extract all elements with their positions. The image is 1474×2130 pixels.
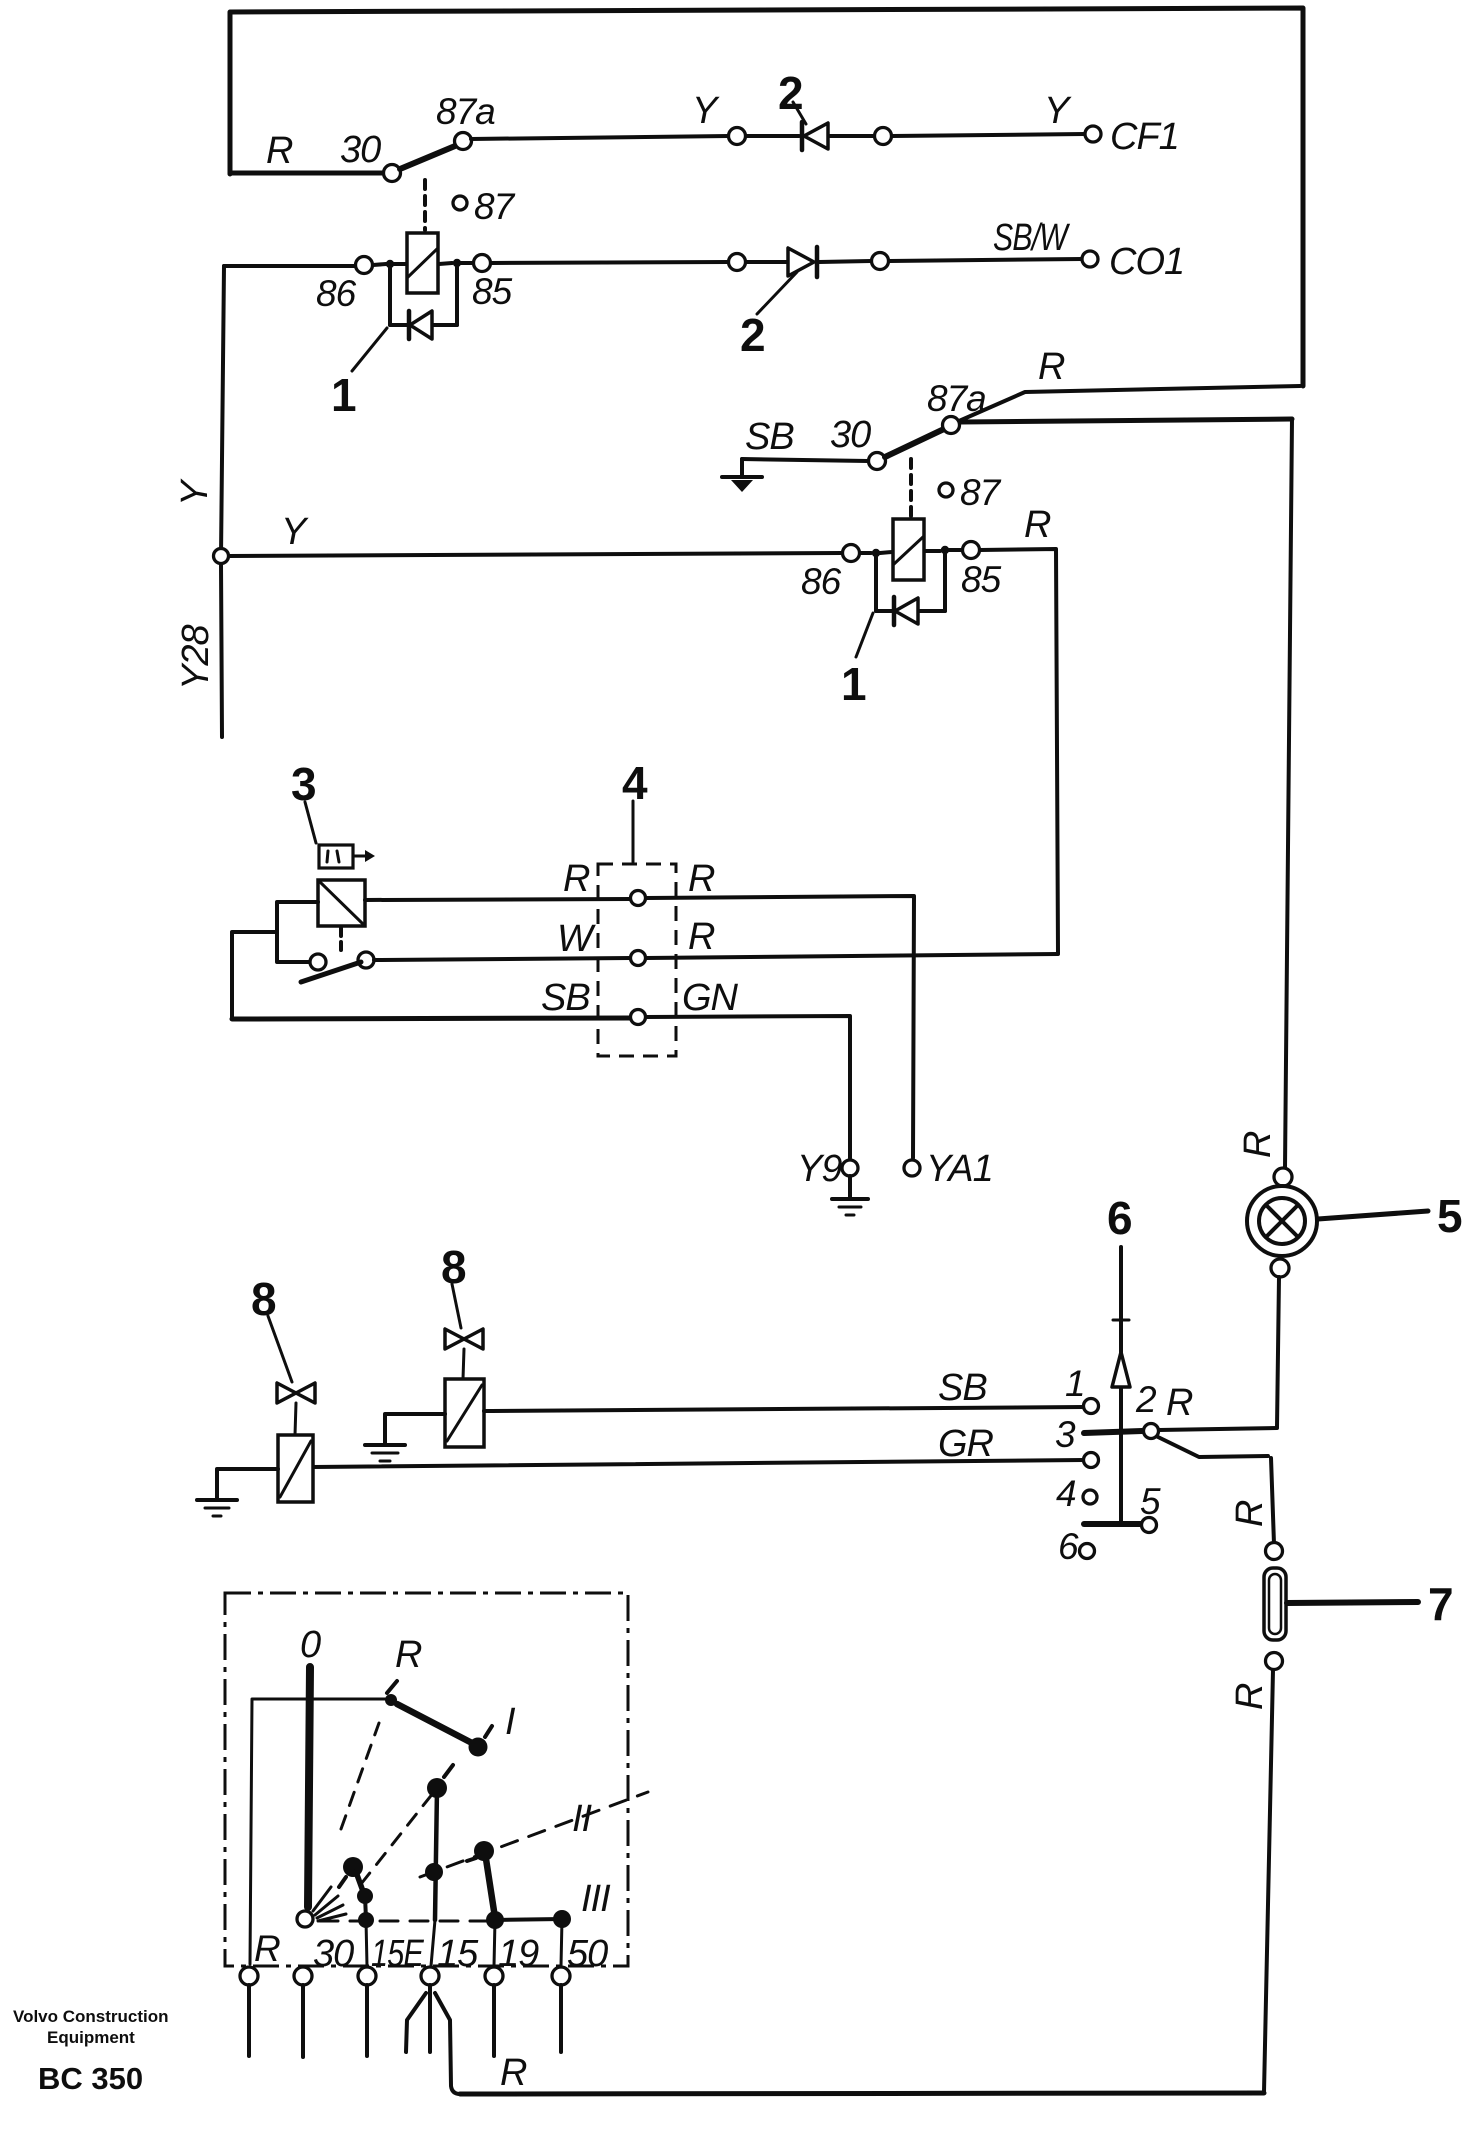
wire: bottom R bus to fuse leg [460, 2093, 1264, 2094]
relay 1: diode cathode bar [407, 311, 412, 339]
svg-text:SB: SB [938, 1367, 987, 1409]
diode 2b cathode bar [815, 247, 820, 277]
wire: terminal 15 fork middle prong [428, 1985, 432, 2052]
component 3: switch blade [301, 962, 361, 982]
component 3: solenoid diagonal [320, 882, 363, 924]
wire: node Y down to Y28 tail [221, 564, 222, 737]
svg-text:30: 30 [313, 1933, 354, 1975]
svg-text:1: 1 [331, 369, 357, 421]
ignition switch: 15E lever [356, 1872, 364, 1894]
svg-text:2: 2 [740, 309, 766, 361]
wire: to diode 2b [746, 260, 787, 264]
svg-text:R: R [1024, 504, 1051, 546]
svg-text:86: 86 [316, 273, 357, 314]
relay 2: diode triangle [895, 598, 918, 624]
svg-text:R: R [563, 858, 590, 900]
wire: into relay1 pin 86 from left [224, 264, 355, 268]
wire: terminal 15 fork right prong down to bottom bus [435, 1993, 460, 2094]
wire: solenoid left leg [277, 902, 318, 962]
leader line for designator 2 lower [757, 272, 797, 314]
svg-text:I: I [505, 1701, 516, 1743]
wire: solenoid to connector pin R [365, 899, 631, 900]
component 3: dashed actuator link [339, 928, 343, 955]
wire: node Y to relay2 pin 86 [229, 553, 842, 556]
leader line for designator 8 right [452, 1284, 461, 1328]
relay 1 (upper): contact 30 [384, 165, 401, 182]
connector 4 pin row2 [631, 951, 646, 966]
wire: lamp bottom to switch pin2 row [1277, 1277, 1279, 1427]
component 3: switch contact right [358, 952, 374, 968]
svg-text:Y: Y [692, 90, 720, 132]
svg-text:CO1: CO1 [1109, 241, 1184, 283]
relay 2: contact 87a [943, 417, 960, 434]
svg-text:0: 0 [300, 1624, 321, 1666]
wire: 50 to terminal [561, 1919, 562, 1966]
relay 2: suppression diode loop right leg [943, 554, 947, 611]
ignition switch: blade R to I [397, 1704, 472, 1743]
wire: diode 2a to splice [830, 134, 874, 138]
leader line for designator 1 [352, 328, 387, 371]
svg-text:R: R [500, 2052, 527, 2094]
wire: junction to coil [880, 552, 892, 553]
svg-text:87: 87 [474, 186, 516, 227]
wire: terminal 19 pigtail [492, 1985, 496, 2056]
ignition switch: 15E spur [339, 1877, 346, 1887]
valve 8 left: stem [295, 1403, 296, 1435]
svg-text:87: 87 [960, 472, 1002, 513]
component 3 icon box [319, 845, 353, 868]
relay 2: suppression diode loop left leg [874, 557, 878, 611]
valve 8 right: coil diagonal [447, 1385, 482, 1441]
svg-text:85: 85 [472, 271, 513, 312]
diode 2a triangle [804, 123, 828, 149]
wire: relay1 87a to Y row [471, 136, 729, 139]
lamp 5: inner ring [1259, 1198, 1305, 1244]
svg-text:R: R [1237, 1131, 1279, 1158]
switch 6: pin 5 [1142, 1518, 1157, 1533]
svg-text:Y9: Y9 [797, 1148, 842, 1190]
svg-text:7: 7 [1428, 1578, 1454, 1630]
terminal R circle [240, 1967, 258, 1985]
wire: terminal 15 fork left prong [406, 1993, 426, 2052]
valve 8 right: bowtie symbol [445, 1329, 464, 1349]
svg-text:85: 85 [961, 559, 1002, 600]
switch 6: pin 4 [1083, 1490, 1097, 1504]
switch 6: pin 6 [1080, 1544, 1095, 1559]
node Y junction circle [214, 549, 229, 564]
wire: fuse down to bottom R bus [1264, 1670, 1273, 2092]
wire: pin2 to lamp drop [1159, 1428, 1277, 1430]
ignition switch: solid row 19-50 [495, 1919, 562, 1920]
wire: coil to junction 85 side [925, 549, 940, 553]
terminal 15 circle [421, 1967, 439, 1985]
switch 6: actuator stem [1119, 1247, 1123, 1524]
splice circle Y row right [875, 128, 892, 145]
wire: Y row to terminal CF1 [892, 134, 1085, 136]
terminal 30 circle [294, 1967, 312, 1985]
wire: 86 stub [860, 551, 871, 555]
ignition switch: R contact dot [385, 1694, 397, 1706]
ignition switch: 50 row dot [553, 1910, 571, 1928]
ignition switch: 19 spur [467, 1858, 476, 1861]
ignition switch: R contact spur [387, 1681, 397, 1693]
svg-text:R: R [1038, 346, 1065, 388]
svg-text:R: R [688, 916, 715, 958]
wire: relay1 85 to diode 2b row [491, 262, 729, 263]
ignition switch: I contact dot [469, 1738, 488, 1757]
relay 1: coil box [407, 233, 438, 293]
relay 1: contact 87a [455, 133, 472, 150]
relay 2: coil box [893, 519, 924, 580]
svg-text:6: 6 [1058, 1526, 1079, 1567]
leader line for designator 4 [632, 801, 635, 862]
terminal CO1 [1082, 251, 1098, 267]
svg-text:Y: Y [174, 478, 216, 506]
wire: SB/W to terminal CO1 [889, 259, 1082, 261]
wire: terminal 30 pigtail [301, 1985, 305, 2057]
relay 2: diode cathode bar [892, 597, 897, 625]
svg-text:R: R [1229, 1500, 1271, 1527]
svg-text:Equipment: Equipment [47, 2028, 135, 2047]
relay 2: contact 30 [869, 453, 886, 470]
svg-text:R: R [1166, 1382, 1193, 1424]
svg-text:GN: GN [682, 977, 739, 1019]
svg-text:87a: 87a [436, 91, 495, 132]
diode 2b triangle [788, 248, 814, 276]
wire: terminal R pigtail [247, 1985, 251, 2056]
ignition switch: 15E row dot [358, 1912, 374, 1928]
svg-text:1: 1 [841, 658, 867, 710]
diode 2a cathode bar [800, 122, 805, 150]
wire: tap to SB row [232, 932, 277, 1019]
valve 8 left: coil diagonal [280, 1441, 311, 1497]
switch 6: lower contact bar [1084, 1521, 1141, 1527]
component 3 icon marks [327, 851, 328, 862]
ignition switch: dashed radial to 15 [361, 1783, 441, 1884]
relay 2: actuator dashed link [909, 459, 913, 517]
wire: right-side R bus down to lamp [1285, 419, 1292, 1168]
ground symbol at right valve [365, 1443, 405, 1447]
svg-text:8: 8 [251, 1273, 277, 1325]
relay 1: suppression diode loop right leg [455, 267, 459, 325]
switch 6: stem tick [1113, 1319, 1129, 1322]
wire: junction to 85 terminal [949, 548, 962, 552]
terminal 50 circle [552, 1967, 570, 1985]
relay 2: terminal circle 86 [843, 545, 860, 562]
wire: switch to connector pin W [374, 958, 631, 960]
relay 2: suppression diode loop bottom [876, 609, 945, 613]
svg-text:Y: Y [1044, 90, 1072, 132]
valve 8 left: coil box [278, 1435, 313, 1502]
wire: valve8 right coil to ground [385, 1414, 445, 1443]
wire: valve8 left coil to ground [217, 1469, 278, 1499]
relay 2: contact 87 [939, 483, 953, 497]
svg-text:W: W [557, 918, 596, 960]
svg-text:SB: SB [745, 416, 794, 458]
switch 6: upper contact bar [1084, 1431, 1142, 1433]
svg-text:30: 30 [340, 129, 381, 171]
wire: pin2 branch down to fuse [1158, 1437, 1268, 1457]
svg-text:III: III [581, 1878, 611, 1920]
relay 1: terminal circle 85 [474, 255, 491, 272]
ground symbol at left valve [197, 1498, 237, 1502]
leader line for designator 2 [793, 102, 806, 124]
leader line for designator 1 (relay2) [856, 613, 873, 657]
svg-text:15E: 15E [371, 1933, 424, 1975]
wire: row1 R to terminal YA1 [646, 896, 914, 1158]
junction at relay2 85 side [941, 546, 949, 554]
terminal Y9 [842, 1160, 858, 1176]
wire: SB row to connector [232, 1018, 631, 1019]
wire: junction to coil [394, 262, 406, 266]
wire: relay2 87a up to top loop (R) [959, 386, 1300, 421]
ground symbol at relay2 30 feed [740, 459, 744, 477]
fuse 7: upper terminal circle [1266, 1543, 1283, 1560]
ignition switch: dashed contact row [320, 1920, 487, 1923]
svg-text:8: 8 [441, 1241, 467, 1293]
svg-text:30: 30 [830, 414, 871, 456]
lamp 5: bottom terminal circle [1271, 1259, 1289, 1277]
wire: 15E to terminal [366, 1920, 367, 1966]
ignition switch: 15E lower dot [357, 1888, 373, 1904]
relay 2: coil diagonal [894, 537, 923, 564]
ignition switch: 15 column bold link [435, 1789, 437, 1920]
lamp 5: top terminal circle [1274, 1168, 1292, 1186]
wire: row2 R joins relay2 85 drop [646, 954, 1058, 958]
wire: relay2 85 to right then down [980, 549, 1058, 953]
relay 1: diode triangle [410, 311, 432, 339]
wire: row3 GN to terminal Y9 [646, 1016, 850, 1158]
terminal CF1 [1085, 126, 1101, 142]
wire: R feed to relay1 contact 30 [230, 171, 383, 176]
terminal YA1 [904, 1160, 920, 1176]
svg-text:BC 350: BC 350 [38, 2061, 143, 2096]
ignition switch: dashed radial to II [420, 1792, 648, 1877]
svg-text:5: 5 [1140, 1481, 1161, 1522]
svg-text:4: 4 [622, 757, 648, 809]
ignition switch: 15 mid contact dot [425, 1863, 443, 1881]
wire: terminal 15E pigtail [365, 1985, 369, 2056]
svg-text:SB/W: SB/W [993, 217, 1070, 259]
svg-text:3: 3 [1055, 1414, 1076, 1455]
valve 8 right: stem [463, 1349, 464, 1379]
wire: R contact to terminal R [250, 1699, 385, 1964]
svg-text:50: 50 [567, 1933, 608, 1975]
switch 6: pin 3 [1084, 1453, 1099, 1468]
relay 1: suppression diode loop bottom [390, 323, 457, 327]
ignition switch: I contact spur [485, 1726, 492, 1737]
wire: GR from valve to switch pin3 [313, 1460, 1084, 1467]
wire: relay1 86 down the left side to node Y [221, 266, 224, 556]
svg-text:SB: SB [541, 977, 590, 1019]
ignition switch: 15 upper spur [444, 1765, 453, 1777]
ignition switch: 15E upper contact dot [343, 1857, 363, 1877]
relay 1: terminal circle 86 [356, 257, 373, 274]
relay 1: contact 87 [453, 196, 467, 210]
relay 2: switch blade 30-87a [885, 429, 944, 457]
wire: SB from valve to switch pin1 [492, 1407, 1084, 1411]
ignition switch: dashed radial to R [341, 1723, 379, 1829]
relay 1: suppression diode loop left leg [388, 268, 392, 325]
component 3: solenoid box [318, 880, 365, 926]
splice circle CO1 row left [729, 254, 746, 271]
ignition switch: wiper rays [313, 1887, 331, 1911]
wire: ground to relay2 contact 30 [742, 459, 868, 461]
leader line for designator 3 [305, 802, 316, 843]
leader line for designator 8 left [268, 1316, 292, 1382]
connector 4 pin row1 [631, 891, 646, 906]
lamp 5: cross [1266, 1205, 1298, 1237]
svg-text:YA1: YA1 [926, 1148, 993, 1190]
svg-text:15: 15 [437, 1933, 479, 1975]
svg-text:4: 4 [1056, 1473, 1076, 1514]
ignition switch: 15 upper contact dot [427, 1778, 447, 1798]
lamp 5: outer ring [1247, 1186, 1317, 1256]
leader line for designator 7 [1287, 1602, 1418, 1603]
relay 1: actuator dashed link [423, 180, 427, 230]
wire: 15 column to terminal [431, 1920, 435, 1966]
relay 2: terminal circle 85 [963, 542, 980, 559]
wire: junction to 85 terminal [461, 261, 473, 265]
ignition switch: 19 upper contact dot [474, 1841, 494, 1861]
fuse 7: lower terminal circle [1266, 1653, 1283, 1670]
wire: 19 to terminal [494, 1920, 495, 1966]
wire: diode 2b to splice [819, 261, 871, 262]
svg-text:CF1: CF1 [1110, 116, 1179, 158]
svg-text:Y: Y [281, 511, 309, 553]
fuse 7 body [1264, 1568, 1286, 1640]
component 3: switch contact left [310, 954, 326, 970]
ground symbol below Y9 [848, 1176, 852, 1198]
svg-text:R: R [395, 1634, 422, 1676]
wire: terminal 50 pigtail [559, 1985, 563, 2052]
wire: top feed loop from relay1 contact 30 up over to right side [230, 8, 1303, 386]
svg-text:R: R [1229, 1683, 1271, 1710]
svg-text:2: 2 [1135, 1379, 1157, 1420]
ignition switch: 19 row dot [486, 1911, 504, 1929]
wire: to diode 2a [746, 134, 799, 138]
wire: 86 stub [373, 264, 386, 265]
svg-text:6: 6 [1107, 1192, 1133, 1244]
svg-text:5: 5 [1437, 1190, 1463, 1242]
valve 8 left: bowtie symbol [277, 1383, 296, 1403]
connector 4 dashed outline [598, 864, 676, 1056]
leader line for designator 5 [1318, 1211, 1428, 1219]
ignition switch: 15E link to row [365, 1896, 366, 1919]
junction at relay1 86 side [386, 260, 394, 268]
wire: coil to junction 85 side [439, 263, 452, 264]
svg-text:R: R [688, 858, 715, 900]
wire: valve8 right coil out to SB row [484, 1409, 492, 1413]
switch 6: pin 1 [1084, 1399, 1099, 1414]
ignition switch: rotor pivot circle [297, 1911, 313, 1927]
svg-text:R: R [254, 1928, 280, 1969]
junction at relay2 86 side [872, 549, 880, 557]
junction at relay1 85 side [453, 259, 461, 267]
terminal 15E circle [358, 1967, 376, 1985]
svg-text:Y28: Y28 [175, 625, 217, 690]
terminal 19 circle [485, 1967, 503, 1985]
svg-text:GR: GR [938, 1423, 994, 1465]
svg-text:Volvo Construction: Volvo Construction [13, 2007, 169, 2026]
splice circle CO1 row right [872, 253, 889, 270]
svg-text:86: 86 [801, 561, 842, 602]
ignition switch: 19 lever [486, 1859, 494, 1911]
svg-text:1: 1 [1065, 1363, 1085, 1404]
svg-text:II: II [572, 1798, 593, 1840]
svg-text:R: R [266, 130, 293, 172]
switch 6: actuator arrow [1112, 1352, 1130, 1387]
svg-text:19: 19 [498, 1933, 539, 1975]
switch 6: pin 2 [1144, 1424, 1159, 1439]
wire: relay2 87a bus to right side [960, 419, 1292, 422]
splice circle Y row left [729, 128, 746, 145]
ignition switch: dash-dot enclosure [225, 1593, 628, 1966]
relay 1: coil diagonal [408, 249, 437, 277]
ignition switch: position 0 lever (bold) [308, 1667, 310, 1907]
connector 4 pin row3 [631, 1010, 646, 1025]
component 3 icon arrow [354, 855, 366, 858]
valve 8 right: coil box [445, 1379, 484, 1447]
relay 1: switch blade 30-87a [400, 146, 455, 169]
